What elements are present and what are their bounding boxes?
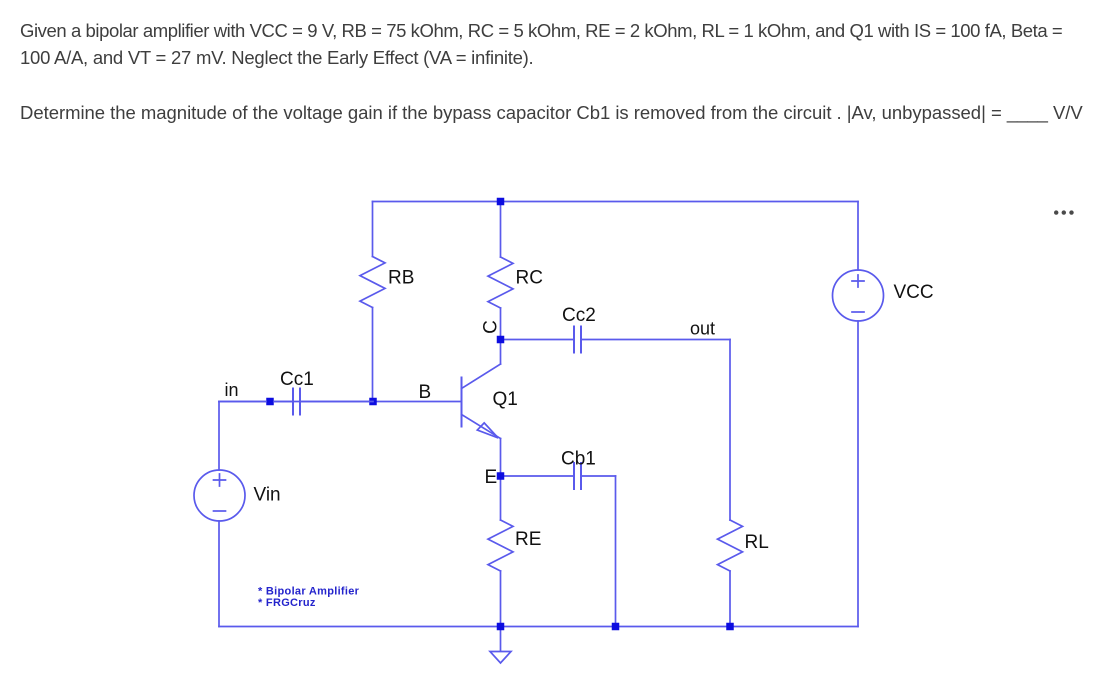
- wire VCC bottom lead: [857, 321, 859, 627]
- wire RB top lead: [372, 202, 374, 257]
- svg-text:C: C: [481, 320, 502, 334]
- node RE bottom junction: [497, 623, 505, 631]
- svg-text:RE: RE: [515, 529, 541, 550]
- resistor RC: [488, 257, 513, 308]
- wire Cb1 right plate to corner: [582, 475, 616, 477]
- voltage source VCC: [833, 270, 884, 321]
- resistor RL: [718, 520, 743, 571]
- svg-text:RC: RC: [516, 268, 543, 289]
- svg-text:* FRGCruz: * FRGCruz: [258, 597, 316, 609]
- wire node in to Cc1 left plate: [274, 401, 292, 403]
- wire in corner down to Vin: [218, 402, 220, 471]
- wire RE bottom lead: [500, 571, 502, 627]
- wire Vin to node in: [219, 401, 266, 403]
- node in at Cc1: [266, 398, 274, 406]
- svg-text:Cc1: Cc1: [280, 369, 314, 390]
- svg-text:RB: RB: [388, 268, 414, 289]
- svg-text:Q1: Q1: [493, 389, 518, 410]
- wire RE top lead: [500, 476, 502, 520]
- problem statement paragraph 1 line 1: [20, 17, 1062, 44]
- svg-text:out: out: [690, 319, 715, 339]
- wire Vin bottom to ground rail: [218, 521, 220, 627]
- node B junction: [369, 398, 377, 406]
- wire node E to Cb1 left plate: [501, 475, 574, 477]
- transistor Q1: [462, 364, 501, 439]
- svg-text:E: E: [485, 467, 498, 488]
- problem statement paragraph 1 line 2: [20, 44, 533, 71]
- ground: [490, 627, 511, 664]
- wire emitter stub to node E: [500, 439, 502, 477]
- wire top rail from RB to VCC: [373, 201, 859, 203]
- resistor RB: [360, 257, 385, 308]
- svg-text:RL: RL: [745, 532, 769, 553]
- capacitor Cc1: [293, 389, 300, 415]
- wire Cc2 right plate to out corner: [582, 339, 730, 341]
- node RL bottom junction: [726, 623, 734, 631]
- capacitor Cc2: [574, 327, 581, 353]
- wire bottom ground rail: [219, 626, 858, 628]
- svg-text:* Bipolar Amplifier: * Bipolar Amplifier: [258, 586, 360, 598]
- svg-text:B: B: [419, 382, 432, 403]
- wire RB bottom lead to base node: [372, 308, 374, 402]
- node E: [497, 472, 505, 480]
- svg-text:Cc2: Cc2: [562, 305, 596, 326]
- wire RC top lead: [500, 202, 502, 258]
- problem statement paragraph 2: [20, 99, 1083, 126]
- wire out branch down to RL: [729, 340, 731, 521]
- resistor RE: [488, 520, 513, 571]
- wire RL bottom lead: [729, 571, 731, 627]
- node Cb1 bottom junction: [612, 623, 620, 631]
- wire RC bottom lead / collector stub: [500, 308, 502, 364]
- svg-text:Cb1: Cb1: [561, 449, 596, 470]
- wire Cb1 branch down to ground rail: [615, 476, 617, 627]
- svg-text:in: in: [225, 380, 239, 400]
- wire node C to Cc2 left plate: [501, 339, 574, 341]
- capacitor Cb1: [574, 463, 581, 489]
- ellipsis menu: [1054, 210, 1058, 214]
- svg-text:Vin: Vin: [254, 485, 281, 506]
- wire VCC top lead: [857, 202, 859, 271]
- svg-text:VCC: VCC: [894, 282, 934, 303]
- node junction top rail: [497, 198, 505, 206]
- voltage source Vin: [194, 470, 245, 521]
- node C: [497, 336, 505, 344]
- wire Cc1 right plate to node B: [301, 401, 373, 403]
- wire base wire from in to Q1 base: [219, 401, 462, 403]
